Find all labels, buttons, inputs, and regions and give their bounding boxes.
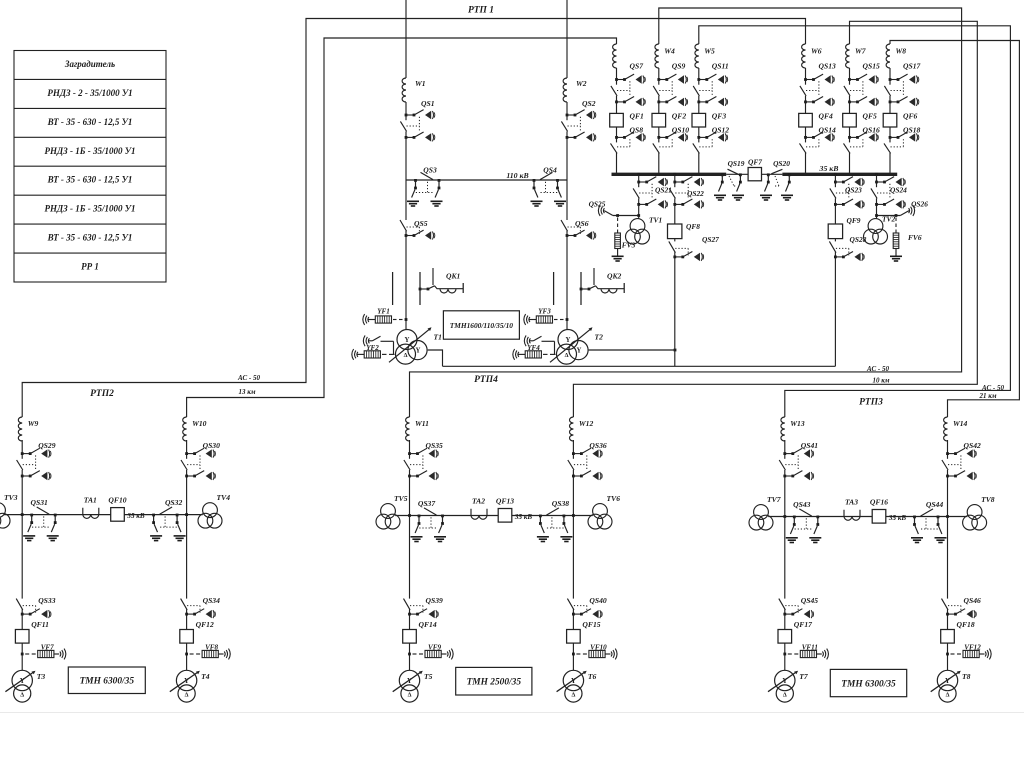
- svg-text:РНДЗ - 1Б - 35/1000 У1: РНДЗ - 1Б - 35/1000 У1: [45, 204, 136, 214]
- fuse VF9: [408, 653, 411, 656]
- svg-text:QS17: QS17: [903, 62, 922, 71]
- svg-text:QF2: QF2: [672, 112, 687, 121]
- disconnector QS1: [400, 110, 434, 142]
- svg-text:ВТ - 35 - 630 - 12,5 У1: ВТ - 35 - 630 - 12,5 У1: [47, 175, 133, 185]
- svg-text:21 км: 21 км: [978, 392, 996, 400]
- disconnector QS15: [844, 74, 878, 106]
- svg-text:QS46: QS46: [964, 596, 982, 605]
- svg-text:ТА1: ТА1: [84, 496, 97, 505]
- current transformer ТА3: [844, 510, 860, 521]
- bus 35 кВ right section: [782, 173, 897, 176]
- line trap W8: [886, 44, 890, 68]
- svg-text:QS25: QS25: [589, 200, 606, 209]
- svg-text:QF4: QF4: [819, 112, 834, 121]
- junction QS15 bus: [848, 173, 851, 176]
- svg-text:QF1: QF1: [630, 112, 645, 121]
- wire 35кВ feeder column QS11/QF3: [698, 68, 700, 173]
- disconnector QS3 with earthing switches: [407, 172, 443, 206]
- line trap W13: [781, 417, 785, 441]
- svg-text:QS32: QS32: [165, 498, 183, 507]
- disconnector QS38 with earthing switches: [537, 508, 573, 542]
- wire W5 to РТП3 feeder1 loop (АС-50 21км): [699, 26, 1011, 417]
- svg-text:QS8: QS8: [630, 126, 644, 135]
- wire 35кВ feeder column QS15/QF5: [849, 68, 851, 173]
- svg-text:QS22: QS22: [687, 189, 704, 198]
- svg-text:ТМН1600/110/35/10: ТМН1600/110/35/10: [450, 321, 514, 330]
- wire QF9 branch: [834, 173, 837, 176]
- circuit breaker QF9: [828, 224, 842, 239]
- svg-text:QS12: QS12: [712, 126, 730, 135]
- wire 35кВ feeder column QS13/QF4: [805, 68, 807, 173]
- svg-text:QS20: QS20: [773, 159, 790, 168]
- svg-text:АС - 50: АС - 50: [981, 384, 1004, 392]
- fuse VF11: [783, 653, 786, 656]
- disconnector QS36: [568, 448, 602, 480]
- disconnector QS25: [604, 211, 613, 216]
- disconnector QS9: [653, 74, 687, 106]
- voltage transformer TV4: [198, 503, 222, 528]
- circuit breaker QF11: [15, 630, 29, 644]
- line trap W5: [695, 44, 699, 68]
- svg-text:QS2: QS2: [582, 99, 596, 108]
- svg-text:VF7: VF7: [41, 644, 54, 652]
- transformer Т3 (two-winding): [5, 670, 35, 702]
- wire feeder lower Т5: [409, 516, 411, 671]
- line trap W6: [802, 44, 806, 68]
- arrester FV6: [895, 218, 897, 222]
- bus 35кВ ТМН 6300/35: [768, 516, 967, 518]
- line trap W12: [570, 417, 574, 441]
- svg-text:Т7: Т7: [799, 672, 809, 681]
- svg-text:QF14: QF14: [419, 620, 437, 629]
- svg-text:TV4: TV4: [217, 493, 231, 502]
- circuit breaker QF16: [872, 510, 886, 524]
- junction QS13 bus: [804, 173, 807, 176]
- disconnector QS23: [830, 177, 864, 209]
- disconnector QS18: [884, 132, 919, 153]
- svg-text:QS43: QS43: [793, 500, 811, 509]
- svg-text:QF13: QF13: [496, 497, 514, 506]
- disconnector QS32 with earthing switches: [150, 507, 186, 541]
- wire 35кВ col1 to РТП2 feeder2 loop: [187, 38, 617, 417]
- line trap feeder QS7: [613, 44, 617, 68]
- svg-text:QS27: QS27: [702, 235, 719, 244]
- junction QS11 bus: [697, 173, 700, 176]
- svg-text:QF15: QF15: [582, 620, 600, 629]
- current transformer ТА2: [471, 509, 487, 520]
- svg-text:QS45: QS45: [801, 596, 819, 605]
- svg-text:YF2: YF2: [366, 344, 379, 352]
- disconnector QS43 with earthing switches: [786, 509, 822, 543]
- svg-text:РНДЗ - 1Б - 35/1000 У1: РНДЗ - 1Б - 35/1000 У1: [45, 146, 136, 156]
- svg-text:QF16: QF16: [870, 498, 888, 507]
- voltage transformer TV5: [376, 504, 400, 529]
- svg-text:VF10: VF10: [590, 644, 607, 652]
- disconnector QS5: [400, 220, 435, 240]
- wire W2 feeder column: [566, 0, 568, 78]
- svg-text:W12: W12: [579, 419, 594, 428]
- disconnector QS22: [669, 177, 703, 209]
- faint scan artifact line: [0, 712, 1024, 714]
- svg-text:QS36: QS36: [589, 441, 607, 450]
- wire 35кВ feeder column QS9/QF2: [658, 68, 660, 173]
- svg-text:Т2: Т2: [595, 333, 604, 342]
- svg-text:YF4: YF4: [527, 344, 540, 352]
- svg-text:35 кВ: 35 кВ: [126, 512, 144, 520]
- svg-text:QF6: QF6: [903, 112, 918, 121]
- wire feeder W11 upper: [409, 440, 411, 516]
- svg-text:ВТ - 35 - 630 - 12,5 У1: ВТ - 35 - 630 - 12,5 У1: [47, 117, 133, 127]
- disconnector QS16: [844, 132, 879, 153]
- disconnector QS35: [404, 448, 438, 480]
- wire feeder W13 upper: [784, 440, 786, 517]
- wire W4 to РТП4 feeder1 loop (АС-50 10км): [410, 8, 962, 417]
- svg-text:Т8: Т8: [962, 672, 971, 681]
- svg-text:TV5: TV5: [394, 494, 408, 503]
- disconnector QS28: [829, 241, 864, 261]
- transformer T1 (three-winding): [389, 327, 432, 364]
- circuit breaker QF2: [652, 113, 666, 127]
- svg-text:QF17: QF17: [794, 620, 813, 629]
- svg-text:ТА3: ТА3: [845, 498, 858, 507]
- svg-text:QS24: QS24: [890, 186, 907, 195]
- svg-text:QS38: QS38: [552, 499, 570, 508]
- svg-text:Т1: Т1: [434, 333, 443, 342]
- svg-text:W11: W11: [415, 419, 429, 428]
- svg-text:QS7: QS7: [630, 62, 645, 71]
- wire feeder lower Т8: [947, 517, 949, 671]
- bus 35кВ ТМН 6300/35: [4, 514, 203, 516]
- svg-text:QS41: QS41: [801, 441, 819, 450]
- wire TV2 branch: [875, 173, 878, 176]
- circuit breaker QF15: [567, 630, 581, 644]
- voltage transformer TV2: [864, 219, 888, 244]
- bus 110 кВ: [406, 179, 567, 181]
- line trap W7: [846, 44, 850, 68]
- svg-text:QS39: QS39: [426, 596, 444, 605]
- svg-text:QS21: QS21: [655, 186, 672, 195]
- disconnector QS33: [16, 599, 51, 619]
- svg-text:QS4: QS4: [543, 166, 557, 175]
- disconnector QS39: [404, 599, 439, 619]
- svg-text:QS31: QS31: [31, 498, 49, 507]
- line trap W11: [406, 417, 410, 441]
- svg-text:QS29: QS29: [38, 441, 56, 450]
- disconnector QS20: [771, 169, 782, 174]
- wire W1 column 110кВ bus to T1: [405, 180, 407, 330]
- wire 35кВ feeder column QS17/QF6: [889, 68, 891, 173]
- svg-text:W13: W13: [790, 419, 805, 428]
- svg-text:QK1: QK1: [446, 272, 461, 281]
- svg-text:QS16: QS16: [863, 126, 881, 135]
- line trap W4: [655, 44, 659, 68]
- svg-text:YF3: YF3: [538, 308, 551, 316]
- svg-text:QF5: QF5: [863, 112, 878, 121]
- line trap W14: [944, 417, 948, 441]
- svg-text:Заградитель: Заградитель: [64, 59, 115, 69]
- svg-text:QF9: QF9: [847, 216, 861, 225]
- circuit breaker QF18: [941, 630, 955, 644]
- disconnector QS42: [942, 448, 976, 480]
- svg-text:FV6: FV6: [908, 233, 922, 242]
- svg-text:РТП 1: РТП 1: [468, 6, 494, 16]
- disconnector QS7: [611, 74, 645, 106]
- circuit breaker QF10: [111, 508, 125, 522]
- svg-text:QS44: QS44: [926, 500, 944, 509]
- circuit breaker QF7: [748, 168, 761, 181]
- wire 35кВ trunk La (T1/T2 to QF9 branch): [443, 365, 836, 367]
- disconnector QS10: [653, 132, 688, 153]
- svg-text:АС - 50: АС - 50: [237, 374, 260, 382]
- transformer Т4 (two-winding): [170, 670, 200, 702]
- wire feeder W10 upper: [186, 440, 188, 515]
- svg-text:VF9: VF9: [428, 644, 441, 652]
- wire feeder lower Т6: [572, 516, 574, 671]
- line trap W9: [18, 417, 22, 441]
- svg-text:QF11: QF11: [31, 620, 49, 629]
- wire QS25/FV3 stub: [613, 215, 639, 217]
- svg-text:РТП3: РТП3: [859, 398, 883, 408]
- svg-text:QS42: QS42: [964, 441, 982, 450]
- svg-text:QS23: QS23: [845, 186, 862, 195]
- svg-text:ТМН 6300/35: ТМН 6300/35: [80, 677, 135, 687]
- box ТМН1600/110/35/10: [443, 311, 519, 339]
- wire feeder lower Т7: [784, 517, 786, 671]
- disconnector QS13: [800, 74, 834, 106]
- circuit breaker QF1: [610, 113, 624, 127]
- disconnector QS26: [900, 211, 909, 216]
- svg-text:РР 1: РР 1: [81, 262, 99, 272]
- svg-text:QS9: QS9: [672, 62, 686, 71]
- svg-text:QS40: QS40: [589, 596, 607, 605]
- svg-text:QS19: QS19: [728, 159, 745, 168]
- fuse VF7: [21, 653, 24, 656]
- svg-text:W14: W14: [953, 419, 968, 428]
- wire feeder lower Т3: [21, 515, 23, 671]
- bus tie wire: [726, 173, 748, 175]
- transformer Т7 (two-winding): [768, 670, 798, 702]
- svg-text:QS5: QS5: [414, 219, 428, 228]
- svg-text:РТП4: РТП4: [474, 375, 498, 385]
- line trap W1: [402, 78, 406, 102]
- svg-text:Т3: Т3: [37, 672, 46, 681]
- wire QS26/FV6 stub: [877, 215, 901, 217]
- circuit breaker QF8: [668, 224, 682, 239]
- svg-text:QF12: QF12: [196, 620, 214, 629]
- svg-text:QF18: QF18: [957, 620, 975, 629]
- current transformer QK2: [554, 268, 625, 305]
- wire W1 feeder column: [405, 0, 407, 78]
- wire W8 to РТП3 feeder2 loop: [890, 41, 1019, 418]
- box ТМН 2500/35: [456, 667, 532, 695]
- svg-text:QF10: QF10: [108, 496, 126, 505]
- svg-text:QS33: QS33: [38, 596, 56, 605]
- voltage transformer TV7: [749, 505, 773, 530]
- disconnector QS34: [181, 599, 216, 619]
- svg-text:QS11: QS11: [712, 62, 729, 71]
- wire W7 to РТП4 feeder2 loop: [573, 21, 977, 417]
- svg-text:W4: W4: [664, 47, 675, 56]
- wire T1 35кВ output: [428, 350, 443, 366]
- disconnector QS6: [561, 220, 596, 240]
- svg-text:10 км: 10 км: [872, 377, 889, 385]
- disconnector QS14: [800, 132, 835, 153]
- disconnector QS30: [181, 448, 215, 480]
- svg-text:QS30: QS30: [203, 441, 221, 450]
- svg-text:QS18: QS18: [903, 126, 921, 135]
- svg-text:ВТ - 35 - 630 - 12,5 У1: ВТ - 35 - 630 - 12,5 У1: [47, 233, 133, 243]
- svg-text:QS35: QS35: [426, 441, 444, 450]
- svg-text:13 км: 13 км: [238, 388, 255, 396]
- circuit breaker QF5: [843, 113, 857, 127]
- current transformer ТА1: [83, 508, 99, 519]
- svg-text:QS15: QS15: [863, 62, 881, 71]
- disconnector QS12: [693, 132, 728, 153]
- line trap W2: [563, 78, 567, 102]
- svg-text:W10: W10: [192, 419, 207, 428]
- svg-text:QS3: QS3: [423, 166, 437, 175]
- svg-text:W1: W1: [415, 79, 426, 88]
- disconnector QS8: [611, 132, 646, 153]
- fuse VF12: [946, 653, 949, 656]
- arrester YF2 with neutral knife: [363, 335, 369, 346]
- wire feeder W14 upper: [947, 440, 949, 517]
- earthing stub right bus end: [788, 173, 791, 176]
- disconnector QS4 with earthing switches: [531, 172, 567, 206]
- svg-text:VF11: VF11: [802, 644, 818, 652]
- disconnector QS21: [633, 177, 667, 209]
- disconnector QS40: [567, 599, 602, 619]
- svg-text:35 кВ: 35 кВ: [819, 164, 839, 173]
- box ТМН 6300/35: [830, 669, 906, 696]
- svg-text:QF7: QF7: [748, 158, 762, 167]
- svg-text:АС - 50: АС - 50: [866, 365, 889, 373]
- arrester YF1: [363, 314, 369, 325]
- disconnector QS27: [669, 241, 704, 261]
- svg-text:QS37: QS37: [418, 499, 437, 508]
- earthing stub left bus end: [721, 173, 724, 176]
- svg-text:QS6: QS6: [575, 219, 589, 228]
- svg-text:Т4: Т4: [201, 672, 210, 681]
- current transformer QK1: [393, 268, 464, 305]
- transformer Т8 (two-winding): [931, 670, 961, 702]
- disconnector QS24: [871, 177, 905, 209]
- svg-text:QF3: QF3: [712, 112, 727, 121]
- disconnector QS41: [779, 448, 813, 480]
- voltage transformer TV6: [588, 504, 612, 529]
- circuit breaker QF6: [883, 113, 897, 127]
- svg-text:QF8: QF8: [686, 222, 700, 231]
- circuit breaker QF13: [498, 509, 512, 523]
- disconnector QS2: [561, 110, 595, 142]
- circuit breaker QF3: [692, 113, 706, 127]
- svg-text:РТП2: РТП2: [90, 389, 114, 399]
- svg-text:VF8: VF8: [205, 644, 218, 652]
- wire QF8 branch: [673, 173, 676, 176]
- wire TV1 branch: [637, 173, 640, 176]
- junction QS7 bus: [615, 173, 618, 176]
- line trap W10: [183, 417, 187, 441]
- disconnector QS37 with earthing switches: [411, 508, 447, 542]
- disconnector QS31 with earthing switches: [23, 507, 59, 541]
- svg-text:W2: W2: [576, 79, 587, 88]
- svg-text:РНДЗ - 2 - 35/1000 У1: РНДЗ - 2 - 35/1000 У1: [47, 88, 132, 98]
- svg-text:TV3: TV3: [4, 493, 18, 502]
- disconnector QS19: [728, 169, 741, 175]
- voltage transformer TV1: [626, 219, 650, 244]
- disconnector QS45: [779, 599, 814, 619]
- svg-text:QK2: QK2: [607, 272, 622, 281]
- svg-text:ТА2: ТА2: [472, 497, 485, 506]
- arrester YF4 with neutral knife: [524, 335, 530, 346]
- svg-text:TV8: TV8: [981, 495, 995, 504]
- wire 35кВ feeder column QS7/QF1: [616, 68, 618, 173]
- svg-text:W7: W7: [855, 47, 867, 56]
- svg-text:Т6: Т6: [588, 672, 597, 681]
- svg-text:QS1: QS1: [421, 99, 435, 108]
- fuse VF8: [185, 653, 188, 656]
- transformer T2 (three-winding): [550, 327, 593, 364]
- junction QS9 bus: [657, 173, 660, 176]
- svg-text:QS26: QS26: [911, 200, 928, 209]
- box ТМН 6300/35: [68, 667, 145, 694]
- arrester YF3: [524, 314, 530, 325]
- svg-text:QS34: QS34: [203, 596, 221, 605]
- wire W2 column 110кВ bus to T2: [566, 180, 568, 330]
- arrester FV3: [617, 218, 619, 222]
- transformer Т5 (two-winding): [393, 670, 423, 702]
- disconnector QS44 with earthing switches: [911, 509, 947, 543]
- wire T2 35кВ output: [589, 349, 675, 351]
- bus 35 кВ left section: [612, 173, 727, 176]
- equipment list table: [14, 51, 166, 283]
- svg-text:FV3: FV3: [622, 241, 636, 250]
- svg-text:TV6: TV6: [607, 494, 621, 503]
- circuit breaker QF4: [799, 113, 813, 127]
- svg-text:ТМН 6300/35: ТМН 6300/35: [841, 679, 896, 689]
- svg-text:35 кВ: 35 кВ: [514, 513, 532, 521]
- circuit breaker QF12: [180, 630, 194, 644]
- svg-text:Т5: Т5: [424, 672, 433, 681]
- svg-text:YF1: YF1: [377, 308, 390, 316]
- svg-text:W6: W6: [811, 47, 822, 56]
- wire feeder lower Т4: [186, 515, 188, 671]
- transformer Т6 (two-winding): [557, 670, 587, 702]
- circuit breaker QF14: [403, 630, 417, 644]
- svg-text:TV1: TV1: [649, 216, 662, 225]
- svg-text:QS10: QS10: [672, 126, 690, 135]
- voltage transformer TV3: [0, 503, 10, 528]
- bus 35кВ ТМН 2500/35: [395, 515, 593, 517]
- svg-text:W9: W9: [28, 419, 39, 428]
- svg-text:QS14: QS14: [819, 126, 837, 135]
- svg-text:35 кВ: 35 кВ: [888, 514, 906, 522]
- svg-text:QS13: QS13: [819, 62, 837, 71]
- svg-text:TV7: TV7: [767, 495, 782, 504]
- fuse VF10: [572, 653, 575, 656]
- wire РТП1 to W6 / РТП2 feeder1 loop (АС-50 13км): [22, 19, 805, 418]
- junction QS17 bus: [889, 173, 892, 176]
- svg-text:VF12: VF12: [964, 644, 981, 652]
- svg-text:W5: W5: [704, 47, 715, 56]
- svg-text:W8: W8: [896, 47, 907, 56]
- disconnector QS11: [693, 74, 727, 106]
- disconnector QS17: [884, 74, 918, 106]
- wire feeder W9 upper: [21, 440, 23, 515]
- circuit breaker QF17: [778, 630, 792, 644]
- svg-text:110 кВ: 110 кВ: [506, 171, 528, 180]
- disconnector QS46: [942, 599, 977, 619]
